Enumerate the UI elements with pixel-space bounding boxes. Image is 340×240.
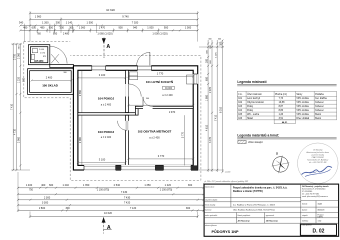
svg-text:340: 340 (19, 21, 24, 25)
svg-text:VPC omítka: VPC omítka (296, 105, 309, 108)
interior partition horizontal east (101/102) (135, 106, 193, 108)
main house exterior wall (73, 66, 197, 170)
svg-text:1 770: 1 770 (157, 72, 164, 76)
svg-text:Koberec: Koberec (315, 101, 324, 104)
svg-text:pl. 230 x 297 (rozměr složenéh: pl. 230 x 297 (rozměr složeného výkresu)… (205, 181, 250, 183)
svg-text:480: 480 (23, 26, 28, 30)
svg-text:1 500: 1 500 (87, 21, 94, 25)
extension lines top (25, 11, 198, 41)
WC fixtures (31, 49, 37, 60)
svg-text:102 OBYTNÁ MÍSTNOST: 102 OBYTNÁ MÍSTNOST (138, 129, 172, 134)
window bottom wall room 103 (84, 165, 116, 171)
top dimension chain 1960 / 9740 (29, 14, 199, 20)
svg-text:název výkresu:: název výkresu: (205, 225, 217, 227)
legend rooms table (237, 91, 336, 123)
window right wall kitchen (193, 74, 199, 84)
svg-text:Jiří Novotný - projekty staveb: Jiří Novotný - projekty staveb (302, 185, 329, 188)
svg-text:1 100 (875): 1 100 (875) (97, 188, 110, 191)
svg-text:Beton: Beton (315, 113, 322, 116)
svg-text:103 POKOJ: 103 POKOJ (98, 130, 115, 134)
svg-text:Zdivo stávající: Zdivo stávající (248, 141, 263, 144)
interior dims room 103 (77, 115, 127, 165)
svg-text:Sklad: Sklad (247, 118, 253, 120)
svg-text:investor:: investor: (205, 208, 212, 211)
svg-text:VPC omítka: VPC omítka (296, 113, 309, 116)
svg-text:06/2023: 06/2023 (318, 210, 325, 212)
svg-text:VPC omítka: VPC omítka (296, 101, 309, 104)
svg-text:101 LETNÍ KUCHYŇ: 101 LETNÍ KUCHYŇ (146, 79, 173, 84)
svg-text:7,73: 7,73 (279, 98, 284, 100)
top dimension chain 340/1260/300/1140/1500/7020 (19, 21, 199, 27)
right dimension chains (199, 39, 230, 174)
top dimension chain 10 620 (29, 8, 199, 14)
svg-text:300: 300 (56, 21, 61, 25)
svg-text:Účel místnosti: Účel místnosti (247, 93, 262, 96)
title block row7: drawing name (205, 225, 239, 234)
title block row4: investor (205, 208, 275, 211)
svg-text:Obytná místnost: Obytná místnost (247, 101, 264, 104)
door opening partition 103/102 (125, 121, 129, 131)
svg-text:750: 750 (29, 188, 34, 191)
interior dim sklad (23, 72, 73, 82)
title block right: company address (302, 185, 329, 198)
svg-text:9 740: 9 740 (122, 14, 129, 18)
svg-text:7 430: 7 430 (124, 195, 131, 199)
svg-text:300: 300 (60, 26, 65, 30)
interior partition jog column (135, 106, 138, 115)
section mark A bottom (102, 217, 112, 233)
svg-text:název akce:: název akce: (205, 186, 215, 188)
svg-text:2 700: 2 700 (14, 53, 17, 60)
svg-text:8 010: 8 010 (220, 106, 223, 113)
svg-text:2 540: 2 540 (114, 183, 121, 187)
door opening partition 104/101 (125, 84, 129, 97)
svg-text:7 020: 7 020 (132, 21, 139, 25)
left dimension chains (10, 43, 30, 171)
svg-text:Letní kuchyň: Letní kuchyň (247, 97, 261, 100)
legend materials title (237, 133, 336, 139)
svg-text:2 970: 2 970 (169, 110, 176, 114)
svg-text:DSPS: DSPS (318, 216, 324, 218)
title block right small rows (302, 203, 324, 223)
svg-text:Legenda místností: Legenda místností (237, 80, 266, 84)
roof overhang dashed outline (24, 42, 201, 181)
svg-text:300: 300 (208, 39, 211, 41)
svg-text:měřítko:: měřítko: (302, 219, 309, 222)
svg-text:106 SKLAD: 106 SKLAD (42, 84, 58, 88)
svg-text:105 WC: 105 WC (34, 59, 43, 63)
svg-text:Obec Radíkov, Radíkovova 170/2: Obec Radíkov, Radíkovova 170/26, 750 02 … (233, 208, 275, 211)
title block row3: misto stavby (205, 204, 276, 207)
svg-text:300: 300 (218, 39, 221, 41)
svg-text:600: 600 (32, 26, 37, 30)
svg-text:Jiří Novotný: Jiří Novotný (238, 219, 251, 222)
svg-text:a ± 2 400: a ± 2 400 (101, 103, 112, 106)
bottom dimension chains (17, 172, 205, 218)
svg-text:Stěny: Stěny (296, 93, 303, 96)
svg-text:hlavní projektant:: hlavní projektant: (238, 214, 251, 217)
svg-text:D. 02: D. 02 (313, 229, 325, 235)
svg-text:44,21: 44,21 (282, 121, 288, 124)
svg-text:Pokoj: Pokoj (247, 106, 253, 108)
svg-text:A: A (107, 225, 111, 231)
svg-text:Autorizovaný technik v oboru: Autorizovaný technik v oboru (307, 151, 329, 154)
svg-text:3 300: 3 300 (42, 201, 49, 205)
svg-text:Koberec: Koberec (315, 109, 324, 112)
svg-text:1 350: 1 350 (144, 183, 151, 187)
corridor bottom wall band (50, 64, 74, 67)
title block row5: labels (205, 214, 275, 217)
svg-text:10 620: 10 620 (104, 211, 112, 215)
svg-text:Paspol zahradního domku na par: Paspol zahradního domku na parc. č. 342/… (233, 187, 288, 190)
svg-text:2 960: 2 960 (18, 136, 21, 143)
svg-text:VPC omítka: VPC omítka (296, 97, 309, 100)
svg-text:datum:: datum: (302, 209, 308, 212)
svg-text:1 220: 1 220 (165, 183, 172, 187)
svg-text:3 770: 3 770 (182, 131, 185, 138)
title block frame (204, 184, 339, 236)
svg-text:7 410: 7 410 (10, 103, 13, 110)
svg-text:tel.: +420 734 797 482: tel.: +420 734 797 482 (309, 161, 326, 164)
legend rooms title (237, 80, 336, 86)
svg-text:1 070: 1 070 (40, 53, 46, 55)
svg-text:300: 300 (205, 58, 208, 63)
svg-text:1 060 (1 020): 1 060 (1 020) (97, 32, 112, 36)
top dimension chain fine segments (19, 26, 199, 36)
kitchen fixtures (130, 72, 194, 84)
interior partition horizontal west (104/103) (78, 113, 135, 115)
svg-text:Beton: Beton (315, 117, 322, 120)
north compass (272, 151, 290, 173)
svg-text:3xA4: 3xA4 (318, 203, 322, 206)
svg-text:1 060: 1 060 (79, 26, 86, 30)
window top wall kitchen 101 (138, 65, 152, 71)
svg-text:8,86: 8,86 (279, 110, 284, 112)
section line A (102, 38, 111, 59)
svg-text:2 400: 2 400 (46, 76, 53, 80)
svg-text:stavební objekt:: stavební objekt: (205, 199, 218, 202)
kitchen exterior door arc (top wall) (137, 52, 150, 66)
door opening partition kitchen/102 (143, 106, 153, 109)
left wing storage (sklad) walls (28, 69, 74, 95)
svg-text:760: 760 (37, 32, 42, 36)
svg-text:2 800: 2 800 (39, 206, 46, 210)
left wing WC walls (28, 45, 49, 65)
svg-text:1 000 (1 020): 1 000 (1 020) (152, 32, 167, 36)
window top wall room 104 (92, 65, 106, 71)
svg-text:1 100 (875): 1 100 (875) (160, 188, 173, 191)
svg-text:600: 600 (49, 183, 54, 187)
svg-text:k.ú. Radíkov u Hranic (737755): k.ú. Radíkov u Hranic (737755) parc. č. … (233, 204, 276, 207)
svg-text:1 880: 1 880 (205, 94, 208, 101)
svg-text:formát:: formát: (302, 203, 308, 206)
svg-text:Dřev. obklad: Dřev. obklad (296, 118, 309, 120)
svg-text:2 480: 2 480 (63, 32, 70, 36)
svg-text:WC - suché: WC - suché (247, 114, 260, 116)
svg-text:osob. oprávnění:: osob. oprávnění: (205, 214, 218, 217)
svg-text:Pokoj: Pokoj (247, 110, 253, 112)
svg-text:+0,000: +0,000 (225, 171, 231, 173)
svg-text:875: 875 (43, 56, 46, 58)
kitchen level 0,000 (163, 86, 174, 90)
svg-text:Jiří Novotný: Jiří Novotný (313, 148, 322, 151)
svg-text:900: 900 (49, 26, 54, 30)
svg-text:pozemní stavby: pozemní stavby (312, 154, 324, 157)
svg-text:104 POKOJ: 104 POKOJ (98, 97, 115, 101)
svg-text:2 960: 2 960 (79, 136, 82, 143)
svg-text:Podlaha: Podlaha (315, 94, 324, 96)
svg-text:email: jirka.novotny24@seznam.: email: jirka.novotny24@seznam.cz (302, 195, 328, 198)
hatch swatch zdivo stavajici (238, 140, 263, 144)
svg-text:650: 650 (205, 76, 208, 81)
window bottom wall room 102 right (164, 165, 192, 171)
svg-text:1 400: 1 400 (26, 183, 33, 187)
svg-text:Ker. dlažba: Ker. dlažba (315, 97, 327, 100)
svg-text:2 300: 2 300 (44, 195, 51, 199)
svg-text:Koberec: Koberec (315, 105, 324, 108)
svg-text:8,87: 8,87 (279, 106, 284, 108)
svg-text:1 000: 1 000 (185, 26, 192, 30)
bottom wall dark pier segments (116, 165, 121, 170)
svg-text:Radíkov u Hranic (737755): Radíkov u Hranic (737755) (233, 190, 263, 193)
svg-text:místo stavby:: místo stavby: (205, 204, 216, 207)
window bottom wall room 102 left (121, 165, 155, 171)
svg-text:a ± 2 400: a ± 2 400 (162, 94, 173, 97)
drawing number box (300, 224, 336, 236)
svg-text:480: 480 (40, 26, 45, 30)
entrance door arc with leaf (50, 46, 67, 63)
svg-text:7 120: 7 120 (130, 206, 137, 210)
svg-text:7 420: 7 420 (124, 201, 131, 205)
svg-text:3 770: 3 770 (158, 154, 165, 158)
svg-text:1,26: 1,26 (279, 114, 284, 116)
svg-text:a ± 2 400: a ± 2 400 (149, 137, 160, 140)
title block row1: project name (205, 186, 288, 201)
svg-text:300: 300 (188, 183, 193, 187)
svg-text:400: 400 (41, 183, 46, 187)
svg-text:900: 900 (53, 32, 58, 36)
svg-text:3 770: 3 770 (209, 136, 212, 143)
svg-text:1 240: 1 240 (63, 183, 70, 187)
svg-text:900: 900 (164, 26, 169, 30)
interior partition vertical bottom (126, 115, 129, 165)
svg-text:7 430: 7 430 (121, 190, 128, 194)
interior dims room 104 (77, 70, 127, 112)
interior dims room 102 (128, 110, 195, 165)
svg-text:Legenda materiálů a hmot:: Legenda materiálů a hmot: (237, 133, 279, 137)
svg-text:1 140: 1 140 (66, 21, 73, 25)
svg-text:300: 300 (23, 77, 26, 82)
svg-text:1 220: 1 220 (18, 76, 21, 83)
svg-text:10 620: 10 620 (106, 8, 115, 12)
title block row6: names (238, 219, 279, 222)
svg-text:2 850: 2 850 (79, 89, 82, 96)
svg-text:300: 300 (186, 206, 191, 210)
svg-text:13,88: 13,88 (279, 102, 285, 104)
svg-text:Plocha (m²): Plocha (m²) (275, 93, 287, 96)
svg-text:ČKAIT 1234567: ČKAIT 1234567 (312, 156, 324, 159)
svg-text:300: 300 (65, 206, 70, 210)
svg-text:4 610: 4 610 (205, 124, 208, 131)
svg-text:900: 900 (118, 26, 123, 30)
svg-text:300: 300 (69, 26, 74, 30)
svg-text:1:50: 1:50 (318, 220, 322, 222)
svg-text:a ± 2 400: a ± 2 400 (101, 136, 112, 139)
WC small dims (39, 49, 46, 58)
round stamp with signature (298, 143, 339, 184)
svg-text:A: A (106, 44, 110, 50)
svg-text:Jiří Novotný: Jiří Novotný (266, 219, 279, 222)
svg-text:2 060: 2 060 (39, 49, 45, 51)
svg-text:940: 940 (133, 26, 138, 30)
svg-text:4 710: 4 710 (14, 128, 17, 135)
svg-text:S: S (276, 151, 278, 155)
svg-text:3 100: 3 100 (99, 73, 106, 77)
svg-text:vypracoval:: vypracoval: (266, 214, 275, 217)
svg-text:1 260: 1 260 (42, 21, 49, 25)
svg-text:1 350: 1 350 (83, 183, 90, 187)
svg-text:1 000: 1 000 (147, 26, 154, 30)
svg-text:±0,000: ±0,000 (165, 88, 173, 90)
interior partition vertical top (126, 70, 129, 112)
svg-text:1 960: 1 960 (35, 15, 42, 19)
svg-text:PŮDORYS 1NP: PŮDORYS 1NP (212, 229, 240, 234)
svg-text:7 410: 7 410 (214, 114, 217, 121)
svg-text:2 060: 2 060 (18, 52, 21, 59)
svg-text:1 470: 1 470 (99, 26, 106, 30)
svg-text:č.m.: č.m. (238, 94, 243, 96)
svg-text:2 970: 2 970 (209, 86, 212, 93)
svg-text:3,51: 3,51 (279, 118, 284, 120)
svg-text:1 475: 1 475 (215, 51, 217, 57)
interior dims kitchen 101 (128, 72, 195, 107)
svg-text:stupeň:: stupeň: (302, 214, 308, 217)
svg-text:3 100: 3 100 (99, 158, 106, 162)
svg-text:VPC omítka: VPC omítka (296, 109, 309, 112)
